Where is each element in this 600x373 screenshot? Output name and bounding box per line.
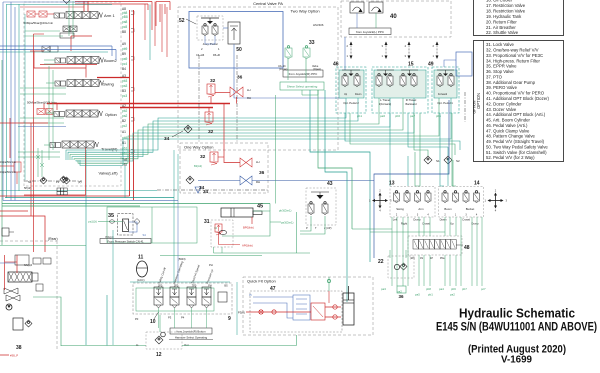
wire red left frame: [34, 51, 86, 68]
svg-text:34: 34: [164, 136, 170, 142]
svg-text:P3: P3: [168, 316, 172, 320]
wire teal vertical x107 bottom: [106, 295, 108, 346]
svg-text:pc3: pc3: [122, 94, 127, 98]
svg-text:Swing: Swing: [396, 207, 404, 211]
wire green verticals x49 x53: [48, 66, 50, 160]
svg-text:LH: LH: [256, 160, 260, 164]
wire blue long drop: [374, 100, 449, 258]
svg-text:42. Dozer Cylinder: 42. Dozer Cylinder: [486, 101, 522, 106]
blue stub bottom left: [0, 262, 15, 264]
wire green dozer 43 drops: [300, 216, 311, 231]
wire red top strip bus: [75, 1, 152, 3]
wire blue horizontal y49: [0, 49, 116, 51]
svg-text:pb1: pb1: [428, 293, 433, 297]
wire teal center drop 3: [325, 90, 347, 302]
stop valve 36 bottom: [397, 286, 406, 293]
svg-text:Two Way Option: Two Way Option: [290, 9, 319, 14]
pilot signal arrows: [350, 42, 352, 58]
svg-text:22: 22: [378, 259, 384, 265]
svg-text:L.Travel: L.Travel: [380, 98, 390, 102]
svg-text:32: 32: [208, 129, 214, 135]
svg-text:41. Additional OPT Block (Doze: 41. Additional OPT Block (Dozer): [486, 96, 550, 101]
one way option bowtie LH: [240, 158, 252, 167]
cylinder 45 red drop: [251, 217, 253, 224]
svg-text:48: 48: [464, 245, 470, 251]
small valve block x42: [42, 46, 50, 52]
wire dashdot vertical x199: [198, 55, 200, 143]
svg-text:pa2: pa2: [397, 290, 402, 294]
wire red y123: [0, 122, 48, 124]
svg-text:Quick Fit Option: Quick Fit Option: [247, 279, 276, 284]
one way option bowtie RH blue: [240, 176, 252, 185]
svg-text:E145 S/N (B4WU11001 AND ABOVE): E145 S/N (B4WU11001 AND ABOVE): [436, 322, 597, 334]
wire red B2 thick bus: [120, 107, 213, 109]
wire green 12 connections: [159, 315, 161, 332]
svg-text:B2(A2): B2(A2): [194, 164, 202, 168]
teal bus pilot line: [130, 281, 230, 283]
wire top left horizontals: [3, 1, 88, 3]
wire teal verticals x174 178: [173, 150, 175, 282]
svg-text:20. Return Filter: 20. Return Filter: [486, 19, 517, 24]
valve spool arm regen small: [63, 26, 70, 32]
svg-text:Up: Up: [450, 222, 454, 226]
pedal valve 52 joey pedal unit: [197, 16, 223, 40]
svg-text:pb1: pb1: [436, 114, 441, 118]
svg-text:35. EPPR Valve: 35. EPPR Valve: [486, 64, 517, 69]
valve 47 blue stack: [293, 295, 310, 320]
svg-text:37. PTO: 37. PTO: [486, 74, 503, 79]
svg-text:43: 43: [327, 181, 333, 187]
svg-text:38: 38: [16, 345, 22, 351]
wire red vertical bus 1: [129, 10, 131, 196]
wire red 32 36 upper: [215, 92, 230, 94]
svg-text:45: 45: [257, 204, 263, 210]
wire green solenoid drops: [158, 308, 160, 328]
svg-text:48. Pattern Change Valve: 48. Pattern Change Valve: [486, 134, 535, 139]
svg-text:C4+H6: C4+H6: [196, 53, 205, 57]
solenoid valve travel speed: [187, 287, 196, 297]
wire teal center drop 2: [318, 90, 352, 229]
wire red 47 vertical: [328, 291, 330, 303]
svg-text:2P0: 2P0: [174, 285, 179, 288]
svg-text:49: 49: [428, 62, 434, 68]
wire teal vertical x150 top: [149, 5, 151, 61]
svg-text:pB8: pB8: [122, 15, 128, 19]
wire red vertical x85 travel: [85, 148, 87, 195]
solenoid aux box: [218, 292, 227, 302]
rear pump right cluster: [33, 258, 41, 264]
svg-text:HSV406: HSV406: [313, 23, 324, 27]
wire green verticals top center: [68, 1, 70, 36]
green supply line y245: [0, 245, 86, 247]
valve spool Swing: [67, 80, 75, 87]
svg-text:pc7: pc7: [481, 287, 486, 291]
svg-text:BS: BS: [224, 285, 228, 288]
wire green horizontal y206: [2, 205, 140, 207]
svg-text:33: 33: [309, 40, 315, 46]
wire blue one way option: [198, 180, 240, 182]
svg-text:LH: LH: [247, 88, 251, 92]
wire teal vertical x25: [24, 14, 26, 180]
joystick cross left: [375, 200, 385, 202]
green loop around EPPR 35: [107, 207, 197, 243]
svg-text:pb1: pb1: [357, 114, 362, 118]
wire blue horizontal y46: [0, 45, 112, 47]
small gauge box left: [2, 228, 9, 236]
solenoid valve hammer operating: [170, 287, 179, 297]
boxed label from joystick L PPC: [349, 28, 391, 35]
wires teal joystick top links: [407, 156, 409, 186]
svg-text:36: 36: [259, 170, 265, 176]
svg-text:P3(K): P3(K): [238, 311, 245, 315]
svg-text:43. Dozer Valve: 43. Dozer Valve: [486, 107, 517, 112]
wire green 33 drops: [287, 58, 289, 80]
wire blue y126: [18, 126, 66, 128]
svg-text:Down: Down: [440, 218, 447, 222]
svg-text:Right: Right: [401, 222, 408, 226]
wire red one way option: [224, 104, 240, 163]
svg-text:pb2: pb2: [122, 109, 128, 113]
svg-text:34. High-press. Return Filter: 34. High-press. Return Filter: [486, 58, 541, 63]
wire green vertical x275: [275, 95, 277, 204]
svg-text:(P): (P): [78, 180, 82, 184]
wire red mid drop x71: [70, 36, 72, 51]
quick clamp cylinder: [343, 293, 354, 325]
wires green collectors: [352, 228, 392, 230]
wire red vertical bus 2: [133, 10, 135, 200]
high pressure return filter 34 row: [157, 189, 268, 191]
svg-text:pc8: pc8: [122, 25, 127, 29]
wire red rear pump: [4, 255, 6, 290]
filter grid symbol: [57, 188, 60, 191]
svg-text:TP0: TP0: [192, 285, 197, 288]
svg-text:5P(dr): 5P(dr): [24, 186, 31, 190]
svg-text:pa8: pa8: [122, 20, 128, 24]
wire 40 internal: [356, 13, 358, 28]
svg-text:B1: B1: [122, 141, 126, 145]
svg-text:PH: PH: [208, 285, 212, 288]
wire red arm1 top: [83, 1, 85, 12]
svg-text:R.Travel: R.Travel: [406, 98, 417, 102]
proportional valve 40 left: [350, 2, 364, 13]
svg-text:35: 35: [108, 213, 114, 219]
wire blue vertical x15: [14, 7, 16, 201]
wire green vertical x61 bottom: [60, 345, 62, 348]
wire red cluster links arm1: [35, 13, 39, 15]
wire red vertical x10: [9, 118, 11, 158]
wires green joystick drops: [391, 217, 393, 286]
svg-text:Down: Down: [355, 93, 362, 96]
boxed label from pressure switch: [100, 239, 151, 244]
svg-text:B3: B3: [122, 89, 126, 93]
wire red verticals bottom of bus: [0, 195, 130, 197]
svg-text:1Mpa/50L/min: 1Mpa/50L/min: [0, 161, 16, 164]
valve spool Option: [66, 110, 74, 117]
joystick L PPC dashed box 40: [341, 1, 451, 37]
svg-text:38. Additional Gear Pump: 38. Additional Gear Pump: [486, 80, 536, 85]
svg-text:Crowd: Crowd: [462, 218, 470, 222]
svg-text:S4: S4: [143, 233, 147, 237]
svg-text:31. Lock Valve: 31. Lock Valve: [486, 42, 514, 47]
svg-text:33. Proportional V/V for PE3C: 33. Proportional V/V for PE3C: [486, 53, 543, 58]
svg-text:pb3(Dzr1): pb3(Dzr1): [279, 209, 292, 213]
valve spool Arm1: [66, 12, 74, 19]
svg-text:(Open): (Open): [313, 67, 321, 71]
wire red verticals label column top: [144, 4, 146, 40]
wire red y211: [0, 210, 28, 212]
wire green row links: [44, 59, 55, 61]
svg-text:Dump: Dump: [471, 222, 479, 226]
svg-text:10: 10: [150, 319, 156, 325]
svg-text:Backward: Backward: [406, 103, 418, 106]
svg-text:21. Air Breather: 21. Air Breather: [486, 25, 516, 30]
relief cluster option: [37, 109, 45, 115]
svg-text:17. Restriction Valve: 17. Restriction Valve: [486, 3, 526, 8]
svg-text:pa2: pa2: [122, 114, 128, 118]
svg-text:pb7: pb7: [462, 287, 467, 291]
valve spool TravelR: [62, 141, 70, 148]
svg-text:46: 46: [333, 62, 339, 68]
wire red A3 segment: [97, 77, 130, 79]
svg-text:pb9: pb9: [122, 47, 128, 51]
solenoid valve safety cutoff: [154, 287, 163, 297]
svg-text:AP0(link): AP0(link): [242, 244, 253, 248]
svg-text:34: 34: [199, 185, 205, 191]
svg-text:#38_P: #38_P: [10, 354, 18, 358]
wire red 47 to cylinder: [325, 306, 341, 308]
svg-text:pa5: pa5: [415, 293, 420, 297]
wire teal vertical x19: [18, 4, 20, 191]
wire teal vertical x125: [124, 166, 126, 199]
wire red y216: [0, 216, 45, 252]
wire blue 47 pilot: [253, 296, 293, 298]
svg-text:PH: PH: [209, 263, 213, 267]
svg-text:Out: Out: [184, 343, 189, 347]
svg-text:32: 32: [200, 154, 206, 160]
boxed label shear select operating: [280, 82, 324, 90]
wire teal bracket bundle mid: [345, 113, 460, 150]
wire blue 52 to 50: [223, 27, 228, 29]
wire dashdot vertical x237: [236, 55, 238, 143]
svg-text:Central Valve PA: Central Valve PA: [253, 1, 283, 6]
svg-text:pb6: pb6: [395, 114, 400, 118]
gear pump 38 block: [13, 318, 23, 330]
svg-text:P0: P0: [135, 317, 139, 321]
svg-text:OPTION: OPTION: [473, 100, 477, 114]
wire red option drop: [56, 104, 58, 111]
svg-text:P4: P4: [181, 316, 185, 320]
svg-text:B8: B8: [122, 30, 126, 34]
svg-text:39. PERO Valve: 39. PERO Valve: [486, 85, 518, 90]
legend box OPTION components 31-52: [474, 41, 564, 162]
svg-text:RH: RH: [247, 96, 251, 100]
solenoid valve pressure up: [202, 287, 211, 297]
solenoid bank green frame: [136, 288, 214, 311]
tank symbol top: [63, 0, 70, 4]
svg-text:32: 32: [210, 78, 216, 84]
svg-text:Forward: Forward: [438, 93, 448, 96]
svg-text:(5903): (5903): [178, 257, 186, 261]
relief valve 32 mid: [205, 112, 213, 122]
wire teal vertical x6: [6, 4, 8, 198]
svg-text:Hammer Select Operating: Hammer Select Operating: [175, 336, 208, 340]
wire green vertical x2: [1, 60, 3, 245]
svg-text:B4: B4: [122, 67, 126, 71]
quick fit option dashed box: [243, 277, 373, 335]
svg-text:pa9: pa9: [122, 57, 128, 61]
rear pump dashed box: [0, 240, 57, 242]
valve 50 two way pedal safety: [228, 22, 240, 44]
wire teal center drop 1: [310, 90, 370, 262]
red pilot valve small left: [14, 162, 21, 172]
wire pedal web lines: [66, 84, 346, 160]
svg-text:22. Shuttle Valve: 22. Shuttle Valve: [486, 30, 519, 35]
svg-text:Travel(R): Travel(R): [101, 147, 118, 152]
relief valve 32 upper: [207, 84, 215, 94]
svg-text:One Way Option: One Way Option: [184, 145, 213, 150]
svg-text:1P: 1P: [430, 257, 433, 260]
wire green pump outlet: [33, 297, 146, 346]
svg-text:pa3: pa3: [122, 84, 128, 88]
svg-text:Arm: Arm: [418, 207, 424, 211]
svg-text:Valve(Left): Valve(Left): [99, 171, 119, 176]
wire teal vertical x237 bottom: [236, 282, 238, 335]
svg-text:32. One/two-way Relief V/V: 32. One/two-way Relief V/V: [486, 48, 539, 53]
svg-text:Arm 1: Arm 1: [104, 13, 115, 18]
wire teal horizontal y198: [5, 197, 174, 199]
svg-text:50Mpa/5bar@20L/min: 50Mpa/5bar@20L/min: [24, 21, 54, 25]
wire blue vertical x11: [10, 2, 12, 201]
svg-text:40. Proportional V/V for PERO: 40. Proportional V/V for PERO: [486, 91, 545, 96]
front pump circle: [6, 304, 12, 310]
svg-text:15: 15: [408, 62, 414, 68]
svg-text:49. Pedal V/V (Straight Travel: 49. Pedal V/V (Straight Travel): [486, 139, 545, 144]
svg-text:S1: S1: [436, 159, 440, 163]
one way option relief 32: [210, 152, 218, 162]
svg-text:13: 13: [389, 181, 395, 187]
svg-text:36. Stop Valve: 36. Stop Valve: [486, 69, 514, 74]
shuttle valve S2: [444, 156, 452, 164]
solenoid bank dashed box 9: [133, 283, 232, 314]
svg-text:47. Quick Clamp Valve: 47. Quick Clamp Valve: [486, 128, 530, 133]
svg-text:P0a: P0a: [440, 257, 445, 260]
svg-text:Pr1(pr): Pr1(pr): [106, 235, 114, 239]
svg-text:pa2: pa2: [450, 293, 455, 297]
joystick cross right: [491, 200, 501, 202]
svg-text:pa6: pa6: [380, 114, 385, 118]
green loop inner vertical: [151, 207, 153, 243]
svg-text:Pr: Pr: [249, 293, 252, 297]
svg-text:from Joystick(R) PPC: from Joystick(R) PPC: [289, 72, 319, 76]
wire teal horizontal y190 left: [0, 190, 157, 192]
svg-text:40: 40: [390, 14, 397, 20]
option bracket right side: [464, 92, 466, 122]
svg-text:Shear Select operating: Shear Select operating: [287, 85, 318, 89]
wire teal vertical x86: [85, 150, 87, 345]
wire green short stubs left: [20, 87, 66, 89]
svg-text:from Joystick(L) PPC: from Joystick(L) PPC: [356, 30, 385, 34]
shuttle valve S1: [424, 156, 432, 164]
boxed label from joystick R button: [170, 328, 212, 334]
svg-text:OPTION: OPTION: [476, 93, 481, 109]
svg-text:2(Forward): 2(Forward): [379, 103, 391, 106]
shuttle 34 mid: [184, 125, 192, 133]
svg-text:51. Switch Valve (for Clamshel: 51. Switch Valve (for Clamshell): [486, 150, 547, 155]
wire red boom2 bus: [40, 64, 97, 66]
svg-text:50. Two Way Pedal Safety Valve: 50. Two Way Pedal Safety Valve: [486, 144, 548, 149]
valve 33 proportional pair: [287, 46, 289, 48]
bottom shuttle row: [24, 180, 82, 182]
port brackets: [131, 11, 134, 15]
svg-text:12: 12: [156, 352, 162, 358]
wire red vertical x31: [30, 123, 32, 216]
one way option dashed box: [180, 143, 268, 193]
wire green shear select down: [302, 90, 318, 95]
svg-text:Boom2: Boom2: [104, 58, 117, 63]
wire teal vertical x113: [112, 230, 114, 345]
svg-text:Crowd: Crowd: [422, 222, 430, 226]
wire blue 50 down long: [234, 37, 345, 98]
svg-text:B2: B2: [122, 119, 126, 123]
pattern change valve 48: [408, 236, 462, 255]
wire red top strip drops: [151, 2, 153, 31]
svg-text:B9: B9: [122, 52, 126, 56]
valve 12 block: [146, 332, 182, 349]
svg-text:(Rear): (Rear): [48, 237, 58, 241]
svg-text:18. Restriction Valve: 18. Restriction Valve: [486, 8, 526, 13]
svg-text:Dump: Dump: [413, 218, 421, 222]
svg-text:S2: S2: [456, 159, 460, 163]
svg-text:36: 36: [237, 75, 243, 81]
svg-text:pb8: pb8: [426, 287, 431, 291]
boxed label from joystick R PPC: [283, 70, 323, 77]
svg-text:1Mpa/50L/min: 1Mpa/50L/min: [0, 171, 16, 174]
main control valve dashed frame: [24, 2, 121, 186]
wire blue horizontal y200: [3, 199, 178, 201]
svg-text:19. Hydraulic Tank: 19. Hydraulic Tank: [486, 14, 522, 19]
svg-text:31: 31: [204, 219, 210, 225]
rear pump venturi pair: [4, 288, 18, 294]
svg-text:pb3: pb3: [122, 79, 128, 83]
svg-text:pa4: pa4: [439, 287, 444, 291]
svg-text:9: 9: [228, 316, 231, 322]
svg-text:14: 14: [474, 181, 480, 187]
svg-text:R6+I6: R6+I6: [213, 53, 221, 57]
pedal tee symbols: [342, 69, 360, 71]
svg-text:Option: Option: [105, 112, 117, 117]
svg-text:pb6: pb6: [451, 287, 456, 291]
svg-text:A9: A9: [122, 42, 126, 46]
wire teal horizontal y52: [0, 51, 108, 53]
svg-text:36: 36: [398, 294, 404, 299]
wire red A2 thick bus: [47, 103, 230, 105]
svg-text:11: 11: [138, 255, 144, 261]
svg-text:46. Pedal Valve (Arti.): 46. Pedal Valve (Arti.): [486, 123, 528, 128]
svg-text:pa7: pa7: [410, 114, 415, 118]
wire green horizontal y203: [2, 203, 270, 205]
svg-text:pc2: pc2: [122, 124, 127, 128]
svg-text:N1: N1: [28, 180, 32, 184]
wire green 45 drops: [222, 211, 270, 236]
svg-text:52: 52: [179, 18, 185, 24]
wire blue vertical x3: [2, 2, 4, 201]
wire red 31 links: [218, 232, 220, 245]
blue switch valve right of pedals: [456, 52, 472, 76]
svg-text:50: 50: [236, 47, 242, 53]
svg-text:Boom: Boom: [444, 207, 452, 211]
svg-text:Bucket: Bucket: [466, 207, 475, 211]
wire red left box outline: [33, 34, 35, 252]
